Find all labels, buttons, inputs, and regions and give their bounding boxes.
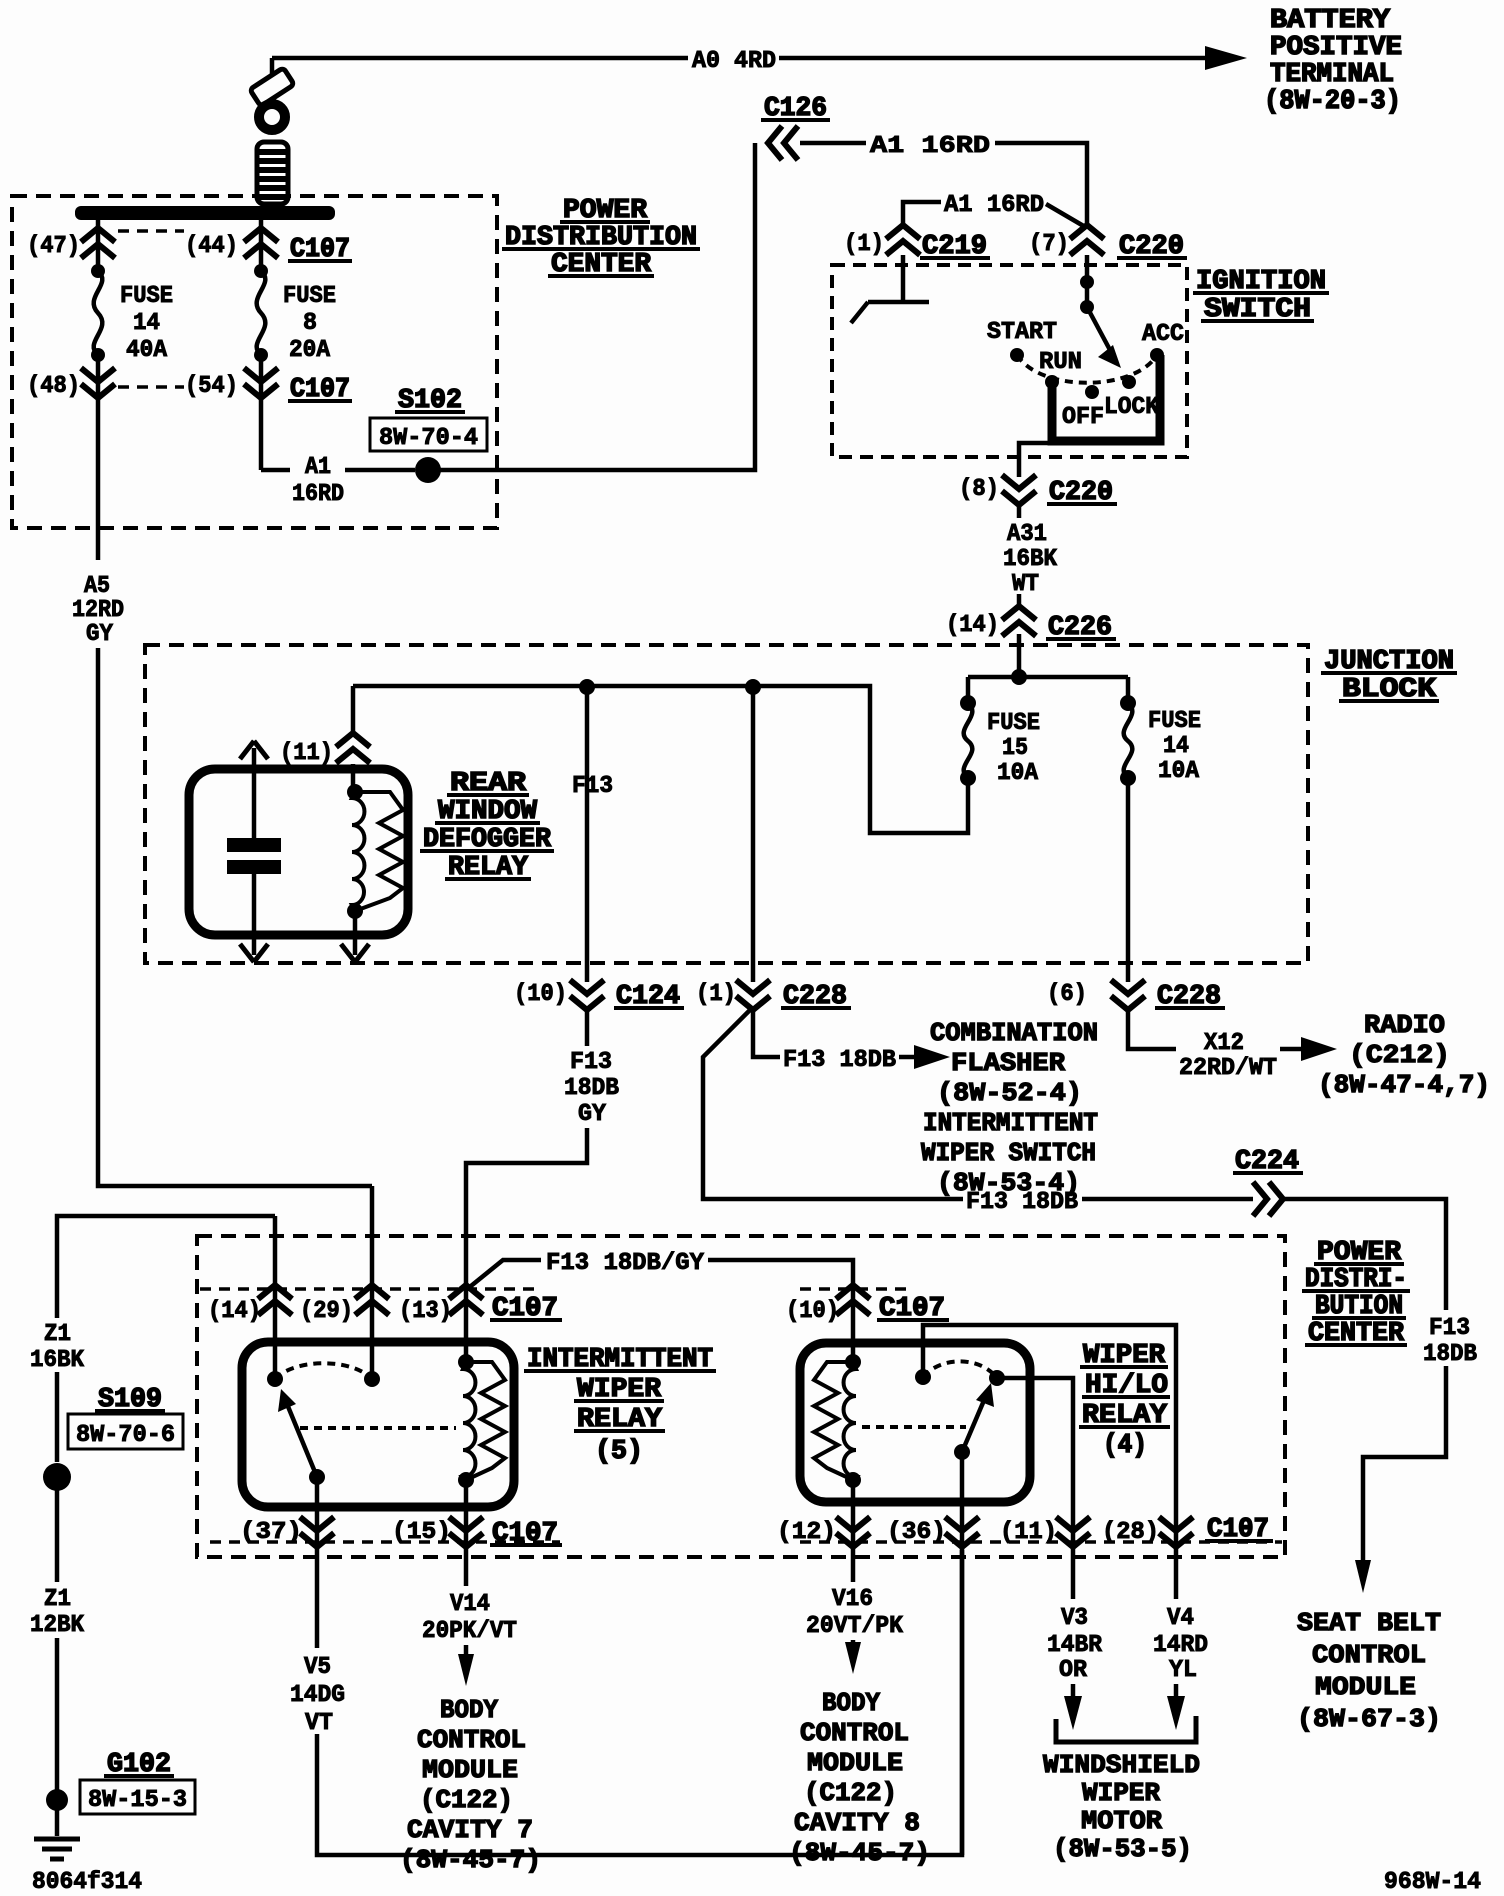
C107 connector dashed row (bottom left) (210, 1540, 560, 1544)
svg-text:15: 15 (1002, 735, 1028, 762)
wire A1 16RD branch to C219 (903, 202, 1087, 228)
svg-text:(12): (12) (777, 1519, 836, 1546)
svg-text:F13 18DB/GY: F13 18DB/GY (546, 1250, 705, 1277)
connector (10) C107 (836, 1285, 870, 1315)
node C228 feed (745, 679, 761, 695)
connector (13) C107 (449, 1285, 483, 1315)
svg-text:FUSE: FUSE (283, 283, 336, 310)
svg-text:18DB: 18DB (1423, 1341, 1477, 1368)
svg-text:(1): (1) (844, 231, 884, 258)
svg-text:GY: GY (86, 621, 114, 648)
wire A0 4RD to battery (272, 56, 1206, 61)
hi/lo switch arm (954, 1444, 970, 1460)
svg-text:(C212): (C212) (1349, 1040, 1450, 1070)
svg-text:8W-70-6: 8W-70-6 (76, 1422, 175, 1449)
relay coil (463, 1362, 475, 1480)
connector (14) C107 (258, 1285, 292, 1315)
svg-text:(7): (7) (1029, 231, 1069, 258)
wires into intermittent wiper relay (275, 1186, 466, 1379)
dashed contact arc (923, 1361, 997, 1378)
wire defogger relay feed (351, 686, 356, 792)
svg-text:(29): (29) (300, 1298, 353, 1325)
connector (1) C219 (886, 225, 920, 255)
intermittent wiper relay box (242, 1342, 514, 1507)
connector (54) C107 (244, 368, 278, 398)
relay coil resistor (355, 792, 403, 911)
svg-text:FUSE: FUSE (120, 283, 173, 310)
wire fuse feed row (968, 675, 1128, 680)
svg-text:(8): (8) (959, 476, 999, 503)
svg-text:16BK: 16BK (30, 1347, 85, 1374)
svg-text:CONTROL: CONTROL (417, 1725, 526, 1755)
svg-text:(14): (14) (208, 1298, 261, 1325)
hi/lo internal dashed link (862, 1425, 966, 1429)
svg-text:YL: YL (1169, 1657, 1197, 1684)
svg-text:FLASHER: FLASHER (951, 1048, 1065, 1078)
wiper motor bracket (1056, 1716, 1196, 1742)
fuse 14 40A (94, 271, 103, 355)
node dot (91, 264, 105, 278)
svg-text:22RD/WT: 22RD/WT (1179, 1055, 1277, 1082)
svg-text:968W-14: 968W-14 (1384, 1869, 1481, 1896)
C107 connector dashed row (top) (200, 1287, 912, 1291)
relay coil (347, 784, 363, 800)
svg-text:A5: A5 (84, 573, 110, 600)
svg-text:RADIO: RADIO (1364, 1010, 1445, 1040)
fuse 15 10A (966, 677, 971, 703)
position dots (1010, 348, 1024, 362)
hi/lo common node and feed (915, 1369, 931, 1385)
wire A31 out of ignition (1019, 443, 1052, 677)
connector (29) C107 (355, 1285, 389, 1315)
connector (11) C107 (1056, 1517, 1090, 1547)
svg-text:A1 16RD: A1 16RD (870, 133, 990, 160)
svg-text:(8W-47-4,7): (8W-47-4,7) (1318, 1070, 1490, 1100)
bus bar (75, 206, 335, 220)
svg-text:Z1: Z1 (44, 1321, 71, 1348)
svg-text:12BK: 12BK (30, 1612, 85, 1639)
svg-text:V16: V16 (832, 1586, 873, 1613)
wire Z1 to ground (57, 1216, 275, 1836)
connector (47) (81, 228, 115, 258)
svg-text:14DG: 14DG (290, 1682, 345, 1709)
svg-text:F13: F13 (572, 773, 613, 800)
wire F13 18DB/GY to hi/lo relay (466, 1260, 853, 1362)
svg-text:(11): (11) (280, 740, 333, 767)
svg-text:(8W-53-4): (8W-53-4) (937, 1168, 1080, 1198)
connector (44) C107 (244, 228, 278, 258)
svg-text:V4: V4 (1167, 1605, 1194, 1632)
svg-text:V5: V5 (304, 1654, 331, 1681)
svg-text:V14: V14 (450, 1591, 490, 1618)
node F13 (579, 679, 595, 695)
svg-text:16RD: 16RD (292, 481, 344, 508)
connector (6) C228 (1111, 980, 1145, 1010)
svg-text:(14): (14) (946, 612, 999, 639)
dashed contact arc (275, 1363, 372, 1379)
svg-text:(8W-20-3): (8W-20-3) (1264, 87, 1401, 117)
svg-text:CONTROL: CONTROL (1312, 1640, 1426, 1670)
relay coil node (458, 1354, 474, 1370)
relay NC node (364, 1371, 380, 1387)
svg-text:A31: A31 (1007, 521, 1047, 548)
fuse 8 20A (257, 271, 266, 355)
svg-text:A0 4RD: A0 4RD (692, 48, 776, 75)
svg-text:SEAT BELT: SEAT BELT (1297, 1608, 1441, 1638)
svg-text:8W-15-3: 8W-15-3 (88, 1787, 187, 1814)
svg-text:CAVITY 8: CAVITY 8 (794, 1808, 920, 1838)
wire defogger row (353, 686, 968, 833)
arrowhead to battery terminal (1205, 46, 1247, 70)
svg-text:WIPER: WIPER (1082, 1778, 1160, 1808)
svg-text:8W-70-4: 8W-70-4 (379, 425, 478, 452)
power distribution center box (lower) (197, 1236, 1285, 1557)
svg-text:18DB: 18DB (564, 1075, 619, 1102)
arrow V3 to wiper motor (1071, 1684, 1076, 1702)
svg-text:(44): (44) (185, 233, 238, 260)
relay switch arm (287, 1404, 317, 1477)
svg-text:(5): (5) (595, 1437, 643, 1467)
svg-text:OR: OR (1059, 1657, 1088, 1684)
wire V16 down (851, 1480, 856, 1582)
svg-text:LOCK: LOCK (1104, 394, 1160, 421)
dashed position arc (1017, 355, 1157, 383)
connector (10) C124 (570, 980, 604, 1010)
hi/lo coil resistor (814, 1362, 853, 1480)
svg-text:MODULE: MODULE (1315, 1672, 1416, 1702)
svg-text:ACC: ACC (1142, 321, 1184, 348)
connector (7) C220 (1070, 225, 1104, 255)
connector (11) (336, 733, 370, 763)
relay capacitor element with arrows (252, 748, 257, 955)
svg-text:8: 8 (303, 310, 317, 337)
connector (48) (81, 368, 115, 398)
svg-text:(15): (15) (392, 1519, 451, 1546)
svg-text:14: 14 (1163, 733, 1189, 760)
svg-text:OFF: OFF (1062, 404, 1104, 431)
svg-text:20A: 20A (289, 337, 331, 364)
arrowhead to seat belt module (1355, 1560, 1371, 1593)
svg-text:10A: 10A (1158, 758, 1200, 785)
svg-text:12RD: 12RD (72, 597, 124, 624)
svg-text:COMBINATION: COMBINATION (930, 1018, 1098, 1048)
svg-text:(11): (11) (1000, 1519, 1057, 1546)
connector (12) C107 (836, 1517, 870, 1547)
svg-text:MODULE: MODULE (422, 1755, 518, 1785)
hi/lo coil node (845, 1354, 861, 1370)
svg-text:10A: 10A (997, 760, 1039, 787)
svg-text:F13: F13 (570, 1049, 612, 1076)
svg-text:F13 18DB: F13 18DB (783, 1047, 896, 1074)
svg-text:A1 16RD: A1 16RD (944, 192, 1044, 219)
svg-text:TERMINAL: TERMINAL (1270, 60, 1394, 90)
relay internal dashed link (300, 1426, 456, 1430)
wire fuse14 to radio (1128, 1010, 1176, 1049)
battery terminal stud symbol (270, 58, 275, 75)
wire C228 feed down (753, 687, 780, 1057)
svg-text:POSITIVE: POSITIVE (1270, 33, 1402, 63)
svg-text:BATTERY: BATTERY (1270, 6, 1391, 36)
svg-text:X12: X12 (1204, 1030, 1244, 1057)
C107 connector dashed row (bottom right) (800, 1540, 1282, 1544)
svg-text:(4): (4) (1103, 1431, 1147, 1461)
connector (8) C220 (1002, 475, 1036, 505)
svg-text:(48): (48) (27, 373, 80, 400)
ground symbol (34, 1839, 80, 1859)
svg-text:40A: 40A (126, 337, 168, 364)
wire F13 down from junction block (466, 687, 587, 1292)
svg-text:WT: WT (1012, 571, 1039, 598)
svg-text:CAVITY 7: CAVITY 7 (407, 1815, 533, 1845)
svg-text:BODY: BODY (440, 1695, 498, 1725)
arrow to body control module 8 (851, 1640, 856, 1648)
wire into ignition switch + open contact hook (851, 255, 929, 323)
svg-text:(13): (13) (399, 1298, 452, 1325)
node dot at fuse row (1011, 669, 1027, 685)
connector (15) C107 (449, 1517, 483, 1547)
svg-text:MODULE: MODULE (807, 1748, 903, 1778)
connector (37) C107 (300, 1517, 334, 1547)
fuse 14 10A (1126, 677, 1131, 703)
svg-text:(8W-52-4): (8W-52-4) (937, 1078, 1082, 1108)
svg-text:(28): (28) (1102, 1519, 1159, 1546)
junction block box (145, 645, 1308, 963)
svg-text:14RD: 14RD (1153, 1632, 1208, 1659)
wiper hi/lo relay box (800, 1343, 1030, 1502)
arrow to body control module 7 (464, 1645, 469, 1660)
svg-text:FUSE: FUSE (987, 710, 1040, 737)
svg-text:(10): (10) (514, 981, 567, 1008)
svg-text:(10): (10) (786, 1298, 839, 1325)
svg-text:RUN: RUN (1039, 349, 1082, 376)
arrow V4 to wiper motor (1174, 1684, 1179, 1702)
svg-text:V3: V3 (1061, 1605, 1088, 1632)
connector (28) C107 (1159, 1517, 1193, 1547)
svg-text:8064f314: 8064f314 (32, 1869, 142, 1896)
svg-text:INTERMITTENT: INTERMITTENT (923, 1108, 1098, 1138)
svg-text:(C122): (C122) (804, 1778, 897, 1808)
rotor arm with arrowhead (1087, 307, 1110, 350)
svg-text:(8W-45-7): (8W-45-7) (400, 1845, 541, 1875)
svg-text:(6): (6) (1047, 981, 1087, 1008)
svg-text:(1): (1) (696, 981, 736, 1008)
svg-text:BODY: BODY (822, 1688, 880, 1718)
connector (36) C107 (945, 1517, 979, 1547)
relay output arrow (353, 911, 358, 955)
svg-text:WIPER SWITCH: WIPER SWITCH (921, 1138, 1096, 1168)
wire A1 16RD (C126 to ignition) (800, 143, 1087, 225)
wire F13 18DB main run (703, 1009, 1446, 1562)
connector (1) C228 (736, 980, 770, 1010)
power distribution center box (12, 196, 497, 528)
rear window defogger relay box (189, 769, 408, 935)
svg-text:(54): (54) (185, 373, 238, 400)
relay coil resistor (466, 1362, 505, 1480)
wires out of relay (317, 1477, 466, 1648)
svg-text:A1: A1 (305, 454, 331, 481)
thick contact bus RUN-ACC (1052, 355, 1160, 441)
C107 connector dashed lines (top rows) (118, 231, 184, 387)
relay common node (267, 1371, 283, 1387)
svg-text:(8W-53-5): (8W-53-5) (1053, 1834, 1192, 1864)
fuse 14 40A branch wire (98, 220, 372, 1186)
svg-text:WINDSHIELD: WINDSHIELD (1043, 1750, 1200, 1780)
ignition rotor wire with nodes (1085, 255, 1090, 307)
svg-text:20PK/VT: 20PK/VT (422, 1618, 517, 1645)
hi/lo relay coil (844, 1362, 856, 1480)
svg-text:(8W-67-3): (8W-67-3) (1297, 1704, 1441, 1734)
svg-text:20VT/PK: 20VT/PK (806, 1613, 904, 1640)
ignition switch box (832, 265, 1187, 457)
svg-text:CONTROL: CONTROL (800, 1718, 909, 1748)
svg-text:(8W-45-7): (8W-45-7) (789, 1838, 930, 1868)
svg-text:F13: F13 (1429, 1315, 1470, 1342)
fuse 8 20A branch wire (261, 143, 755, 470)
wire V5 loop to (36) (317, 1550, 962, 1855)
svg-text:(C122): (C122) (420, 1785, 513, 1815)
svg-text:Z1: Z1 (44, 1586, 71, 1613)
svg-text:GY: GY (578, 1101, 607, 1128)
svg-text:FUSE: FUSE (1148, 708, 1201, 735)
svg-text:14: 14 (133, 310, 160, 337)
svg-text:14BR: 14BR (1047, 1632, 1103, 1659)
svg-text:(37): (37) (240, 1519, 302, 1546)
svg-text:(47): (47) (27, 233, 80, 260)
svg-text:(36): (36) (887, 1519, 946, 1546)
hi/lo NO node (989, 1370, 1005, 1386)
svg-text:16BK: 16BK (1003, 546, 1058, 573)
svg-text:MOTOR: MOTOR (1081, 1806, 1162, 1836)
svg-text:START: START (987, 319, 1057, 346)
connector (14) C226 (1002, 606, 1036, 636)
svg-text:VT: VT (305, 1710, 333, 1737)
